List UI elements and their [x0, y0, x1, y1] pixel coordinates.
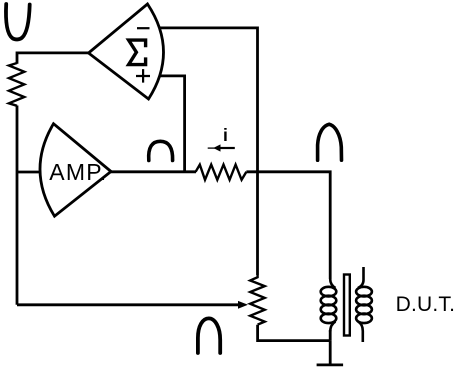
amplifier AMP body [40, 124, 111, 217]
wire transformer primary bottom to ground node [329, 330, 332, 341]
wire potentiometer bottom to transformer/ground [258, 325, 331, 341]
arc annotation (over AMP output wire) [149, 141, 173, 160]
current direction arrow [208, 147, 215, 149]
arc annotation (top-left U) [6, 4, 30, 39]
svg-text:AMP.: AMP. [49, 159, 107, 185]
potentiometer wiper arrowhead [238, 301, 248, 309]
wire from minus input to right vertical rail [159, 28, 258, 275]
wire from summing amp output to left resistor top [17, 53, 89, 64]
ground [317, 341, 344, 365]
arc annotation (bottom) [198, 318, 220, 353]
svg-text:i: i [223, 125, 228, 145]
svg-text:D.U.T.: D.U.T. [396, 293, 456, 316]
wire to AMP input [17, 171, 40, 174]
summing amplifier body [89, 4, 164, 99]
wire from plus input down to AMP output node [159, 76, 185, 172]
wire AMP output to feedback resistor [111, 170, 196, 173]
summing amplifier minus label [137, 27, 150, 29]
resistor (left, vertical) [9, 63, 24, 106]
potentiometer resistor element [250, 275, 265, 325]
summing amplifier plus label [136, 69, 150, 83]
wire left vertical rail down [16, 106, 19, 305]
arc annotation (right, above node) [318, 124, 342, 160]
transformer secondary winding [356, 267, 372, 342]
transformer primary winding [321, 279, 337, 332]
wire resistor to node and across to transformer drop [246, 172, 330, 279]
transformer core [344, 275, 350, 336]
wire bottom horizontal to potentiometer wiper [17, 303, 239, 306]
resistor (feedback, horizontal) [196, 165, 247, 180]
summing amplifier sigma symbol [129, 40, 146, 65]
